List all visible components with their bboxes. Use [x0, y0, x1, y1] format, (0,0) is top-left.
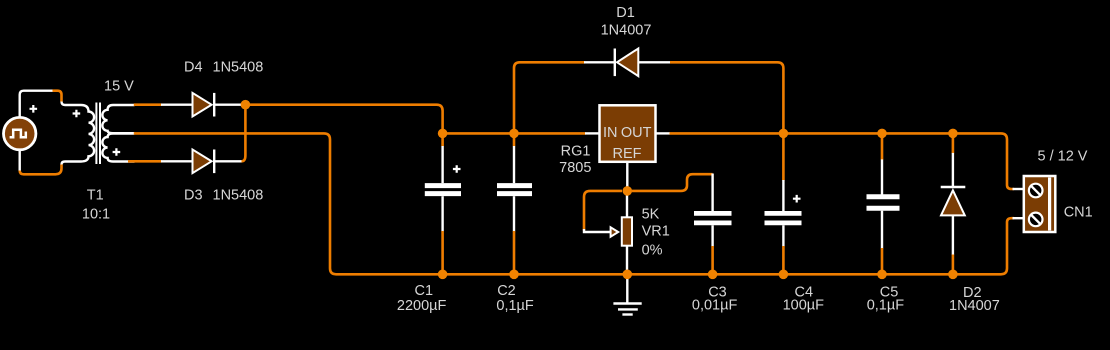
capacitor C4: [765, 133, 802, 274]
svg-text:100µF: 100µF: [783, 298, 825, 314]
svg-text:15 V: 15 V: [104, 79, 134, 95]
transformer T1 secondary lower winding: [102, 134, 134, 162]
svg-text:IN: IN: [603, 125, 618, 141]
svg-text:C2: C2: [497, 283, 516, 299]
node REF junction: [623, 186, 633, 196]
wire rectifier output: D3 branch up to node: [242, 105, 246, 162]
svg-text:T1: T1: [87, 188, 104, 204]
svg-text:7805: 7805: [559, 160, 591, 176]
capacitor C5: [867, 133, 900, 274]
wire rectifier output to C1 top: [245, 105, 442, 134]
wire center tap net: right, down and along bottom rail to CN1 pin 2: [134, 133, 1014, 274]
node C1 bottom: [438, 270, 448, 280]
wire AC source top orange segment: [53, 91, 62, 102]
wire D1 right branch down to OUT rail: [670, 62, 783, 133]
potentiometer VR1: [584, 191, 632, 274]
svg-text:1N4007: 1N4007: [949, 298, 1000, 314]
wire REF pin white: [626, 162, 628, 191]
svg-text:5 / 12 V: 5 / 12 V: [1038, 148, 1088, 164]
plus mark transformer primary: [73, 110, 81, 118]
svg-text:C1: C1: [415, 283, 434, 299]
wire IN pin white: [585, 132, 600, 134]
voltage regulator U RG1 7805: [600, 105, 656, 162]
node C1 top: [438, 129, 448, 139]
wire REF node to C3 top (orange): [632, 174, 713, 191]
AC source V1: [4, 117, 36, 149]
wire secondary top stub orange: [134, 103, 162, 106]
wire secondary top white to D4 anode: [161, 103, 193, 105]
plus mark transformer secondary: [113, 148, 121, 156]
node C5 bottom: [877, 270, 887, 280]
capacitor C2: [497, 133, 532, 274]
svg-text:0,1µF: 0,1µF: [867, 298, 905, 314]
svg-text:1N4007: 1N4007: [601, 22, 652, 38]
svg-text:CN1: CN1: [1064, 205, 1093, 221]
diode D2: [941, 133, 966, 274]
diode D4: [193, 93, 215, 117]
svg-text:OUT: OUT: [621, 125, 652, 141]
svg-text:RG1: RG1: [561, 143, 591, 159]
connector CN1: [1013, 176, 1056, 232]
svg-text:2200µF: 2200µF: [397, 298, 447, 314]
diode D1: [615, 49, 639, 77]
node ground junction: [623, 270, 633, 280]
diode D3: [193, 150, 215, 174]
svg-text:D3: D3: [184, 188, 203, 204]
wire AC source top to transformer primary (white part): [20, 91, 53, 118]
transformer T1 core: [96, 103, 100, 165]
transformer T1 secondary upper winding: [102, 105, 134, 133]
wire AC source bottom (white part): [19, 150, 21, 172]
svg-text:0%: 0%: [642, 242, 663, 258]
svg-text:VR1: VR1: [642, 224, 670, 240]
node rectifier output junction: [241, 100, 251, 110]
svg-text:0,1µF: 0,1µF: [496, 298, 534, 314]
node D2 top: [948, 129, 958, 139]
node C2 bottom: [509, 270, 519, 280]
node C3 bottom: [708, 270, 718, 280]
svg-text:1N5408: 1N5408: [213, 188, 264, 204]
svg-text:1N5408: 1N5408: [213, 60, 264, 76]
wire D4 cathode white: [214, 103, 242, 105]
wire secondary bottom stub orange: [128, 160, 162, 163]
node C5 top: [877, 129, 887, 139]
node C2 / D1 tap: [509, 129, 519, 139]
wire AC source bottom orange segment: [20, 165, 62, 175]
node C4 bottom: [779, 270, 789, 280]
svg-text:5K: 5K: [642, 207, 660, 223]
transformer T1 primary winding: [62, 102, 95, 165]
wire D1 anode-side white: [584, 61, 615, 63]
wire D3 cathode white: [214, 160, 242, 162]
plus mark near AC source: [30, 105, 38, 113]
wire secondary bottom white to D3 anode: [161, 160, 193, 162]
ground: [613, 274, 641, 314]
svg-text:10:1: 10:1: [82, 207, 110, 223]
svg-text:D4: D4: [184, 60, 203, 76]
wire IN rail C1 to regulator: [443, 132, 586, 135]
wire D1 right white: [638, 61, 670, 63]
capacitor C1: [425, 133, 461, 274]
wire D1 left branch (from C2 node up): [514, 62, 585, 133]
node C4 / D1 / OUT rail: [779, 129, 789, 139]
node D2 bottom: [948, 270, 958, 280]
wire OUT rail to CN1 pin 1: [670, 133, 1015, 189]
svg-text:D1: D1: [616, 5, 635, 21]
svg-text:0,01µF: 0,01µF: [692, 298, 738, 314]
svg-text:REF: REF: [613, 146, 642, 162]
capacitor C3: [694, 174, 732, 275]
wire REF node to wiper (orange): [584, 191, 622, 231]
wire OUT pin white: [656, 132, 671, 134]
